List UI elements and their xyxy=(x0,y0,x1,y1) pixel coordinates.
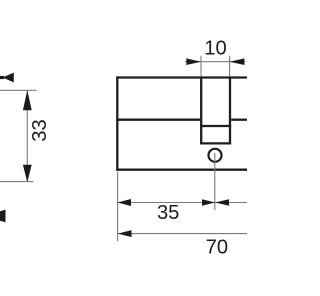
svg-text:33: 33 xyxy=(29,119,51,141)
svg-text:70: 70 xyxy=(206,236,228,258)
svg-text:35: 35 xyxy=(157,202,179,224)
svg-text:10: 10 xyxy=(204,38,226,60)
